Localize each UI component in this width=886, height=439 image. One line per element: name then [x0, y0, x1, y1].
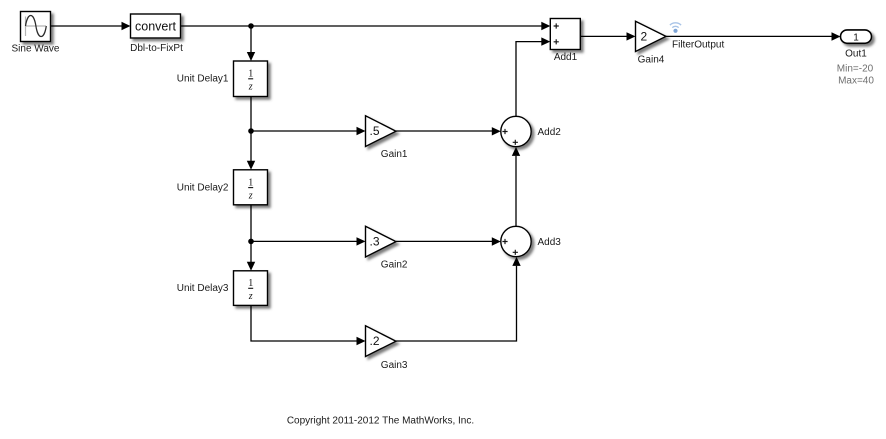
wire junction down to Unit Delay3	[247, 241, 255, 270]
block Unit Delay1	[234, 61, 268, 97]
wire Sine Wave to convert	[51, 22, 131, 30]
block Unit Delay3	[234, 271, 268, 306]
wire Add3 up to Add2 bottom input	[512, 147, 520, 226]
svg-text:.5: .5	[370, 124, 380, 138]
svg-text:Add1: Add1	[554, 52, 578, 63]
signal logging wifi badge	[670, 23, 681, 33]
svg-text:Max=40: Max=40	[838, 75, 874, 86]
svg-text:Copyright 2011-2012 The MathWo: Copyright 2011-2012 The MathWorks, Inc.	[287, 416, 474, 427]
block Unit Delay2	[234, 170, 268, 205]
output port Out1	[841, 30, 872, 43]
svg-text:1: 1	[248, 177, 253, 188]
wire junction to Gain2	[251, 237, 366, 245]
wire Add1 to Gain4	[580, 32, 635, 40]
svg-text:z: z	[248, 291, 253, 302]
svg-text:Dbl-to-FixPt: Dbl-to-FixPt	[130, 43, 183, 54]
svg-text:Add3: Add3	[538, 237, 562, 248]
wire Gain3 right and up to Add3 bottom input	[396, 257, 521, 341]
wire Gain2 to Add3	[396, 237, 501, 245]
svg-text:FilterOutput: FilterOutput	[672, 40, 724, 51]
wire junction down to Unit Delay2	[247, 131, 255, 170]
wire Add2 up to Add1 second input	[516, 37, 550, 116]
svg-text:2: 2	[641, 30, 648, 44]
wire junction to Gain1	[251, 127, 366, 135]
svg-text:Out1: Out1	[845, 49, 867, 60]
gain block Gain2 value .3	[366, 226, 397, 257]
svg-text:Gain4: Gain4	[638, 55, 665, 66]
svg-text:Min=-20: Min=-20	[837, 64, 874, 75]
svg-text:.3: .3	[370, 235, 380, 249]
block convert (Dbl-to-FixPt)	[131, 14, 181, 38]
sum block Add2	[501, 116, 531, 146]
junction node lane1	[248, 128, 254, 134]
svg-text:Sine Wave: Sine Wave	[12, 44, 60, 55]
wire Unit Delay2 down to junction	[250, 205, 252, 242]
svg-text:Unit Delay3: Unit Delay3	[177, 283, 229, 294]
svg-text:z: z	[248, 82, 253, 93]
wire Gain4 to Out1 with net name FilterOutput	[666, 32, 841, 40]
sum block Add3	[501, 226, 531, 256]
svg-text:Unit Delay2: Unit Delay2	[177, 182, 229, 193]
svg-text:Add2: Add2	[538, 127, 562, 138]
wire branch down to Unit Delay1	[247, 26, 255, 61]
svg-text:Unit Delay1: Unit Delay1	[177, 74, 229, 85]
junction node at top branch	[248, 23, 254, 29]
wire Unit Delay1 down to junction	[250, 97, 252, 132]
svg-text:z: z	[248, 190, 253, 201]
wire Unit Delay3 down and right to Gain3	[251, 305, 366, 345]
svg-text:Gain1: Gain1	[381, 149, 408, 160]
gain block Gain3 value .2	[366, 326, 397, 357]
svg-text:convert: convert	[135, 20, 177, 34]
gain block Gain1 value .5	[366, 116, 397, 147]
svg-text:1: 1	[853, 32, 859, 43]
gain block Gain4 value 2	[636, 21, 667, 51]
svg-text:Gain2: Gain2	[381, 260, 408, 271]
svg-text:1: 1	[248, 278, 253, 289]
junction node lane2	[248, 239, 254, 245]
source block Sine Wave	[21, 12, 51, 42]
svg-text:.2: .2	[370, 334, 380, 348]
svg-text:Gain3: Gain3	[381, 360, 408, 371]
svg-text:1: 1	[248, 69, 253, 80]
sum block Add1	[550, 19, 580, 50]
wire convert to Add1 first input	[181, 22, 551, 30]
wire Gain1 to Add2	[396, 127, 501, 135]
